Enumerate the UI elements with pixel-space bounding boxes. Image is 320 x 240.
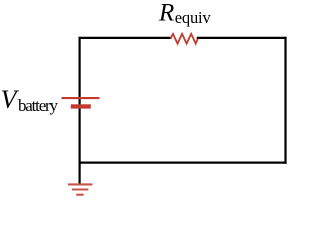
svg-text:R: R [158, 0, 174, 27]
svg-text:battery: battery [18, 96, 58, 115]
svg-text:equiv: equiv [175, 8, 212, 27]
